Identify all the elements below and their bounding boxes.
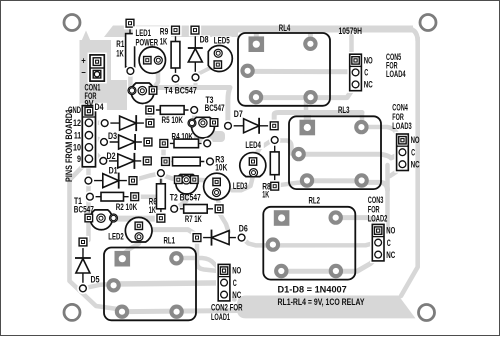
svg-text:D6: D6	[239, 223, 248, 233]
connector CON1	[81, 53, 107, 84]
LED LED3	[204, 173, 230, 199]
svg-text:NO: NO	[411, 135, 420, 145]
svg-text:C: C	[411, 147, 415, 157]
wire band to CON5 NO	[352, 36, 356, 58]
wire R1 top	[128, 27, 133, 68]
wire R6 top stub	[159, 175, 163, 183]
diode D4	[99, 115, 156, 131]
svg-text:D5: D5	[91, 275, 100, 285]
wire R9 stub	[175, 80, 179, 88]
LED LED4	[240, 153, 266, 177]
wire T2 to LED3	[195, 177, 212, 182]
svg-text:1K: 1K	[149, 205, 156, 215]
transistor T3	[188, 117, 218, 138]
svg-text:NC: NC	[411, 159, 420, 169]
wire T1 to R6 bottom	[112, 216, 158, 222]
svg-text:RL3: RL3	[338, 105, 350, 115]
svg-text:LED3: LED3	[233, 181, 248, 191]
connector CON2	[216, 262, 242, 303]
wire LED2 to RL1 coil	[124, 238, 140, 254]
svg-text:LED5: LED5	[214, 36, 230, 46]
wire CON4 to CON3 C	[378, 165, 387, 241]
svg-text:LED1: LED1	[136, 28, 152, 38]
diode D8	[188, 24, 210, 83]
resistor R8	[269, 134, 281, 192]
label LED4	[244, 140, 264, 150]
label R8 1K	[262, 182, 271, 200]
connector CON4	[392, 103, 420, 173]
wire D6 to CON2 NO	[197, 241, 218, 272]
svg-text:RL4: RL4	[279, 23, 291, 33]
resistor R9	[169, 24, 181, 84]
label T3 BC547	[205, 95, 225, 113]
wire CON1 spike	[81, 31, 91, 43]
label D3	[108, 131, 117, 141]
connector CON3	[368, 195, 396, 263]
connector board1 header	[80, 104, 98, 169]
wire RL1 bottom rail to band	[122, 311, 240, 312]
label D1	[109, 165, 118, 175]
wire R5 to T3	[192, 111, 197, 119]
wire CON1 lower area	[80, 84, 127, 106]
label RL1-RL4 = 9V 1CO RELAY	[278, 297, 365, 307]
svg-text:C: C	[387, 238, 391, 248]
wire CON2 NC to band	[224, 295, 235, 300]
wire CON1 area	[80, 40, 112, 84]
wire D6 to RL2 ML to CON3 C	[242, 238, 378, 246]
svg-text:NC: NC	[386, 250, 395, 260]
resistor R7	[169, 203, 226, 224]
svg-text:R5 10K: R5 10K	[162, 115, 184, 125]
resistor R3	[159, 155, 215, 167]
wire RL3 bottom row	[307, 178, 360, 183]
label 12	[73, 118, 81, 128]
wire R4L to R3L	[161, 149, 166, 159]
relay RL4 body	[238, 33, 330, 106]
svg-text:11: 11	[74, 131, 81, 141]
svg-text:NC: NC	[232, 290, 241, 300]
wire R6 to T2	[162, 175, 178, 180]
wire D1 to R6	[134, 173, 161, 180]
svg-text:BC547: BC547	[205, 103, 225, 113]
svg-text:C: C	[233, 278, 237, 288]
svg-text:R2 10K: R2 10K	[116, 202, 138, 212]
relay RL2	[263, 196, 355, 280]
svg-text:1K: 1K	[262, 189, 269, 199]
wire RL4 BL-BR to CON5 NC	[256, 86, 355, 98]
wire pin9 rail to D5	[86, 160, 91, 240]
wire T3 emitter blob	[194, 131, 225, 142]
relay RL3 body	[289, 116, 381, 189]
wire RL2 TR to CON3 NO	[336, 218, 378, 230]
svg-text:T4 BC547: T4 BC547	[164, 86, 197, 96]
resistor R1	[116, 17, 136, 77]
wire T2 to R7	[174, 183, 186, 208]
label T2 BC547	[170, 192, 201, 202]
svg-text:D1: D1	[109, 165, 118, 175]
wire R2 to R6	[136, 195, 156, 200]
wire rail to RL3 TR	[360, 113, 365, 127]
resistor R9 labels	[159, 27, 172, 47]
svg-text:D1-D8 = 1N4007: D1-D8 = 1N4007	[278, 285, 347, 295]
label CON2 FOR LOAD1	[211, 303, 243, 322]
diode D6	[191, 230, 247, 246]
svg-text:LOAD1: LOAD1	[211, 312, 230, 322]
wire top band right	[238, 26, 413, 33]
svg-text:NO: NO	[232, 266, 241, 276]
mounting hole	[419, 305, 435, 321]
transistor T1	[85, 210, 118, 230]
wire LED4 to R8 top	[253, 141, 275, 160]
svg-text:T2 BC547: T2 BC547	[170, 192, 201, 202]
wire top band left	[104, 26, 238, 38]
wire LED4 to LED3	[232, 174, 254, 190]
label 10579H	[339, 26, 363, 36]
svg-text:C: C	[364, 68, 368, 78]
wire LED1 to T4	[154, 62, 158, 88]
svg-text:RL1-RL4 = 9V, 1CO RELAY: RL1-RL4 = 9V, 1CO RELAY	[278, 297, 365, 307]
svg-text:D8: D8	[200, 35, 209, 45]
wire D8 to LED5	[196, 65, 217, 75]
relay RL2 body	[263, 207, 355, 280]
transistor T4	[128, 83, 197, 103]
label D6	[239, 223, 248, 233]
svg-text:NC: NC	[364, 80, 373, 90]
LED LED5	[208, 45, 232, 71]
label T1 BC547	[74, 196, 94, 215]
label LED2	[108, 232, 124, 242]
wire board outline right	[401, 38, 418, 296]
wire T4 left blob	[103, 80, 127, 110]
label R3 10K	[215, 154, 227, 172]
wire CON4 NC	[390, 165, 402, 176]
wire R1 to T4	[128, 71, 133, 88]
wire rail to RL3 coil	[306, 113, 311, 123]
wire D5 to RL1 ML	[83, 284, 113, 288]
svg-text:R9: R9	[160, 27, 169, 37]
svg-text:NO: NO	[386, 226, 395, 236]
svg-text:R7 1K: R7 1K	[185, 214, 202, 224]
label LED3	[233, 181, 248, 191]
label D2	[107, 151, 116, 161]
wire T3 to R4	[205, 130, 210, 141]
svg-text:9: 9	[77, 154, 81, 164]
svg-text:LED2: LED2	[108, 232, 124, 242]
wire RL4 coil to band	[254, 31, 259, 44]
svg-text:+: +	[81, 56, 86, 66]
resistor R6	[155, 167, 167, 224]
svg-text:LED4: LED4	[245, 140, 261, 150]
label 10	[73, 143, 81, 153]
wire RL1 TR to CON2 NO	[178, 258, 221, 270]
label LED1 POWER	[133, 26, 162, 47]
connector CON5	[348, 52, 406, 93]
diode D2	[98, 153, 154, 169]
label LED5	[212, 36, 232, 46]
svg-text:1K: 1K	[116, 49, 124, 59]
wire LED2 to D6	[140, 226, 196, 235]
wire RL3 ML to CON4 C	[298, 153, 402, 158]
relay RL3	[289, 105, 381, 189]
label 11	[74, 131, 81, 141]
label CON1 FOR 9V	[85, 83, 101, 109]
svg-text:LOAD2: LOAD2	[368, 214, 388, 224]
relay RL4	[238, 23, 330, 106]
diode D5	[75, 236, 100, 294]
wire RL4 pad to band	[308, 31, 313, 44]
label D7	[234, 109, 243, 119]
svg-text:NO: NO	[364, 55, 373, 65]
svg-text:LOAD4: LOAD4	[386, 69, 406, 79]
mounting hole	[420, 15, 436, 31]
svg-text:PINS FROM BOARD1: PINS FROM BOARD1	[64, 109, 75, 182]
wire RL4 to RL3 coil	[304, 101, 309, 122]
label GND	[68, 105, 81, 115]
diode D1	[83, 173, 139, 189]
wire D7 to rail 112	[274, 113, 362, 125]
svg-text:1K: 1K	[160, 36, 168, 46]
wire board outline left	[70, 164, 122, 310]
wire RL4 ML to CON5 C	[248, 69, 356, 75]
wire bottom band	[237, 296, 416, 319]
svg-text:D2: D2	[107, 151, 116, 161]
mounting hole	[64, 304, 80, 320]
wire R8 to RL3 BL	[278, 183, 306, 186]
svg-text:9V: 9V	[85, 99, 94, 109]
wire R5L to D4	[148, 113, 153, 121]
diode D3	[98, 134, 154, 150]
svg-text:RL2: RL2	[309, 196, 321, 206]
svg-text:BC547: BC547	[74, 205, 94, 215]
wire pin11 to D3	[90, 136, 103, 142]
svg-text:POWER: POWER	[136, 37, 159, 47]
label PINS FROM BOARD1	[64, 109, 75, 182]
svg-text:10K: 10K	[215, 163, 227, 173]
wire R8 to RL3 ML	[275, 141, 299, 155]
relay RL1 body	[104, 248, 196, 321]
resistor R5	[144, 104, 200, 125]
wire base rail T4-D7	[150, 88, 230, 123]
svg-text:D7: D7	[234, 109, 243, 119]
wire RL3 BR junction	[362, 182, 387, 190]
mounting hole	[64, 15, 80, 31]
resistor R2	[84, 191, 141, 212]
LED LED1	[139, 47, 165, 73]
wire LED5 to band	[216, 37, 220, 50]
label R6 1K	[149, 197, 157, 215]
wire R3L to R6	[161, 164, 165, 173]
wire D8 stub	[194, 79, 198, 88]
svg-text:LOAD3: LOAD3	[392, 121, 411, 131]
label D1-D8 = 1N4007	[278, 285, 347, 295]
svg-text:R4 10K: R4 10K	[172, 131, 194, 141]
svg-text:D4: D4	[95, 102, 104, 112]
transistor T2	[175, 175, 199, 194]
label D4	[93, 102, 107, 112]
svg-text:10579H: 10579H	[339, 26, 363, 36]
wire outline top right corner	[404, 26, 420, 42]
wire RL2 bottom to CON3 NC	[283, 258, 376, 272]
wire pin12 to D4	[90, 120, 103, 125]
resistor R4	[158, 131, 213, 149]
label 9	[77, 154, 81, 164]
wire RL1 ML to CON2 C	[115, 283, 222, 284]
wire pin10 to D2	[90, 148, 102, 161]
wire RL3 TR to CON4 NO	[362, 127, 402, 140]
wire LED3 to R7	[217, 194, 220, 207]
wire R7 to D6	[219, 213, 229, 233]
svg-text:D3: D3	[108, 131, 117, 141]
svg-text:−: −	[81, 68, 86, 78]
diode D7	[222, 118, 280, 134]
relay RL1	[104, 235, 196, 320]
LED LED2	[125, 217, 152, 242]
svg-text:R1: R1	[116, 39, 124, 49]
svg-text:RL1: RL1	[164, 235, 176, 245]
